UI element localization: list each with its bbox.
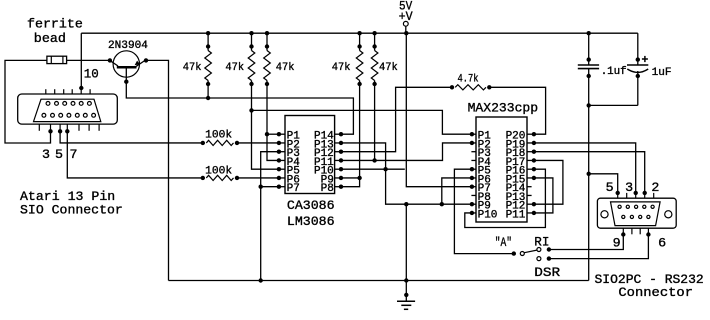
U2 pin P5 [472,168,476,170]
wire DSR to DB9 pin6 [549,235,649,259]
svg-text:3: 3 [42,147,50,162]
wire R1 bottom [207,81,209,99]
node Q1 left lead [108,58,112,62]
node ground line junction [404,202,408,206]
U1 pin P11 [335,159,341,161]
U2 pin P3 stub [471,151,476,153]
U2 pin P20 [527,133,534,135]
svg-text:100k: 100k [205,165,232,177]
U1 pin P9 [335,177,341,179]
U2 pin P14 stub [527,186,532,188]
svg-text:47k: 47k [225,62,244,74]
svg-text:100k: 100k [205,130,232,142]
node SIO pin7 [65,129,69,133]
switch S1 RI contact [537,248,541,252]
svg-text:2N3904: 2N3904 [108,40,148,52]
U2 pin P8 stub [471,194,476,196]
capacitor C1 .1uf [588,33,590,65]
node P7 ground junction [259,185,263,189]
node ground rail P3/P7 [259,278,263,282]
wire ferrite bead to transistor base node [67,59,109,61]
svg-text:6: 6 [658,235,666,250]
U1 pin P13 [335,142,341,144]
wire MAX233 P17 to P12 [534,160,563,204]
transistor Q1 2N3904 body [113,51,139,77]
wire MAX233 P18 to DB9 pin2 [534,152,645,193]
svg-text:5: 5 [606,180,614,195]
connector J2 bottom pins [622,228,624,234]
U2 pin P19 [527,142,534,144]
resistor R1 47k [207,33,209,50]
svg-text:LM3086: LM3086 [287,214,335,229]
svg-text:P11: P11 [506,209,526,221]
wire MAX233 P19 to DB9 pin3 [534,143,636,193]
resistor R2 47k [251,33,253,50]
wire Q1 base line to CA3086 P14 [126,67,353,134]
U1 pin P8 [335,186,341,188]
svg-text:4.7k: 4.7k [458,73,479,85]
svg-text:3: 3 [625,180,633,195]
wire R5 bottom to P11 line [374,81,376,161]
node ground rail center [404,278,408,282]
U2 pin P11 [527,212,534,214]
wire R3 branch to P1 [267,133,279,135]
node R5 P11 junction [372,158,376,162]
wire SIO pin3 to ferrite bead (left loop) [5,60,51,143]
ground [404,293,408,297]
U2 pin P1 [472,133,476,135]
node SIO pin5 [58,129,62,133]
node DB9 pin6 [646,232,650,236]
U1 pin P2 [279,142,285,144]
node DB9 pin3 [634,191,638,195]
wire MAX233 P5 to switch [454,169,513,253]
wire CA3086 P3+P7 to ground [261,152,279,281]
U2 pin P18 [527,151,534,153]
node DB9 pin2 [643,191,647,195]
wire CA3086 P9 to R4 [341,177,360,179]
wire CA3086 P12 to 4.7k [341,87,452,151]
node R3 P1 junction [265,132,269,136]
wire RI to DB9 pin9 [549,235,623,250]
connector J1 top row holes [46,102,50,106]
svg-text:47k: 47k [379,62,398,74]
connector J2 top pins [617,193,619,198]
op-amp U1 CA3086 body [285,116,335,194]
resistor R7 100k [67,131,203,178]
U2 pin P15 [527,177,534,179]
U1 pin P7 [279,186,285,188]
svg-text:10: 10 [84,67,99,82]
U1 pin P4 [279,159,285,161]
wire MAX233 P16 to P10 [465,169,546,227]
svg-text:P10: P10 [478,209,498,221]
svg-text:bead: bead [34,31,66,46]
U1 pin P10 [335,168,341,170]
wire CA3086 P8 to P9 [341,178,360,187]
resistor R6 100k [60,131,203,143]
wire +5V rail [81,32,638,34]
switch S1 DSR contact [537,257,541,261]
wire MAX233 P15 to P11 [534,178,553,213]
ferrite bead FB1 [47,56,67,63]
node P10 junction [383,167,387,171]
U2 pin P2 [472,142,476,144]
svg-text:5: 5 [55,147,63,162]
svg-text:ferrite: ferrite [27,17,83,32]
connector J2 top holes [618,205,621,208]
resistor R8 4.7k [450,85,454,89]
connector J1 top pins [45,89,47,94]
switch S1 blade [524,250,537,253]
node base line R1 junction [206,96,210,100]
wire CA3086 P7 stub [261,186,279,188]
svg-text:DSR: DSR [534,265,560,280]
resistor R4 47k [359,33,361,50]
U2 pin P17 [527,159,534,161]
wire rail to capacitors [637,33,639,65]
wire R2 node to MAX233 P1 [252,110,472,134]
node Q1 right lead [144,58,148,62]
U1 pin P12 [335,151,341,153]
wire CA3086 P13/P10 ground net [341,143,472,204]
wire CA3086 P10 [341,168,405,170]
U2 pin P9 [472,203,476,205]
svg-text:MAX233cpp: MAX233cpp [468,101,538,116]
wire ground trunk [405,204,407,280]
node R4 P9 junction [357,176,361,180]
svg-text:7: 7 [70,147,78,162]
wire ground rail [169,280,589,282]
node DB9 pin5 junction [587,172,591,176]
wire capacitor bottoms [589,104,638,106]
svg-text:Connector: Connector [618,285,693,300]
U1 pin P6 [279,177,285,179]
capacitor C2 1uF [636,57,640,61]
U2 pin P16 [527,168,534,170]
svg-text:P8: P8 [321,183,334,195]
svg-text:47k: 47k [276,62,295,74]
resistor R5 47k [374,33,376,50]
connector J2 bottom holes [622,215,625,218]
connector J2 DB9 body [597,198,676,228]
node R2 MAX233-P1 line junction [249,108,253,112]
ic U2 MAX233 body [476,117,527,222]
wire DB9 pin5 to ground [589,174,618,193]
wire R2 bottom to CA3086 P5 [252,81,279,170]
svg-text:47k: 47k [183,62,202,74]
wire R4 bottom to CA3086 P9 [359,81,361,178]
node DB9 pin5 [616,191,620,195]
svg-text:RI: RI [534,235,549,250]
connector J2 mounting holes [601,211,608,218]
svg-text:1uF: 1uF [652,67,672,79]
svg-text:.1uf: .1uf [601,66,627,78]
U1 pin P1 [279,133,285,135]
node SIO pin3 [48,129,52,133]
wire 5V trunk to MAX233 P7 [406,33,472,187]
svg-text:SIO Connector: SIO Connector [20,203,123,218]
U1 pin P14 [335,133,341,135]
U2 pin P7 [472,186,476,188]
svg-text:CA3086: CA3086 [287,198,335,213]
wire CA3086 P11 to MAX233 P2 [341,143,472,161]
svg-text:Atari 13 Pin: Atari 13 Pin [20,189,115,204]
wire Q1 emitter to ground rail [146,60,169,280]
U2 pin P4 stub [471,159,476,161]
connector J1 bottom row holes [42,113,46,117]
U2 pin P12 [527,203,534,205]
svg-text:9: 9 [613,235,621,250]
node +5V rail [404,31,408,35]
U1 pin P5 [279,168,285,170]
connector J1 bottom pins [38,124,40,131]
wire MAX233 P6 to ground line [442,178,472,204]
U1 pin P3 [279,151,285,153]
U2 pin P10 [472,212,476,214]
wire cap ground drop [588,105,590,280]
svg-text:2: 2 [651,180,659,195]
U2 pin P6 [472,177,476,179]
switch S1 A common [512,251,516,255]
node pin10 top [79,86,83,90]
node MAX gnd corner [440,202,444,206]
wire SIO pin10 to +5V rail [80,33,82,88]
wire R3 bottom to CA3086 P1/P4 [267,81,279,161]
connector J1 Atari SIO body [18,94,118,124]
node DB9 pin9 [621,232,625,236]
svg-text:"A": "A" [495,235,512,250]
svg-text:P7: P7 [287,183,300,195]
node Q1 bottom lead [124,80,128,84]
resistor R3 47k [266,33,268,50]
svg-text:47k: 47k [332,62,351,74]
U2 pin P13 stub [527,194,532,196]
wire 4.7k to MAX233 P20 [489,87,545,134]
